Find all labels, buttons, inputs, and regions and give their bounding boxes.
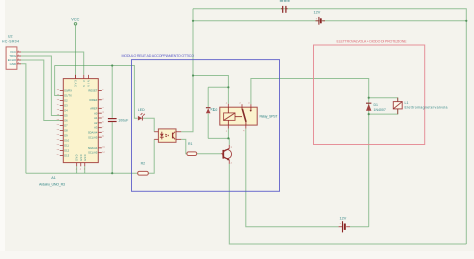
svg-text:3V3: 3V3	[74, 80, 78, 87]
wire D2 vertical bottom	[207, 114, 209, 139]
wire arduino GND pin 1	[76, 166, 78, 173]
svg-text:D0/RX: D0/RX	[64, 89, 72, 93]
svg-text:GND: GND	[10, 62, 16, 66]
junction node (466.3,20.8)	[465, 20, 467, 22]
wire relay contact to solenoid loop	[251, 79, 369, 105]
svg-text:R1: R1	[188, 142, 193, 146]
diode D1 1N4007	[366, 103, 386, 112]
wire VCC stem	[75, 25, 77, 75]
svg-text:SCL/A5: SCL/A5	[88, 151, 98, 155]
svg-text:SDA/A4: SDA/A4	[88, 146, 98, 150]
svg-text:D9: D9	[64, 134, 68, 138]
svg-text:RESET: RESET	[88, 89, 97, 93]
svg-text:A1: A1	[94, 116, 98, 120]
arduino module A1 Arduino_UNO_R3	[57, 75, 106, 171]
wire relay coil bottom to transistor collector	[227, 129, 230, 145]
svg-text:ELETTROVALVOLA + DIODO DI PROT: ELETTROVALVOLA + DIODO DI PROTEZIONE	[337, 40, 408, 44]
solenoid L1 electromagnet	[393, 98, 447, 114]
svg-text:D6: D6	[64, 119, 68, 123]
junction node (112.2,173.2)	[111, 172, 113, 174]
svg-text:1N4007: 1N4007	[374, 108, 386, 112]
svg-text:MODULO RELE' AD ACCOPPIAMENTO: MODULO RELE' AD ACCOPPIAMENTO OTTICO	[122, 54, 195, 58]
junction node (368.7,97.7)	[368, 97, 370, 99]
optocoupler U1	[154, 129, 181, 142]
wire left vertical node x193 down to optocoupler	[181, 9, 193, 132]
svg-text:100uF: 100uF	[118, 118, 128, 122]
svg-text:D8: D8	[64, 129, 68, 133]
svg-text:GND: GND	[75, 154, 79, 161]
wire D2 top branch	[208, 86, 228, 88]
svg-text:D1: D1	[374, 103, 379, 107]
wire capacitor C1 bottom lead	[111, 122, 113, 173]
svg-text:GND: GND	[83, 154, 87, 161]
wire optocoupler cathode down to R2	[148, 139, 154, 173]
svg-text:Arduino_UNO_R3: Arduino_UNO_R3	[39, 182, 65, 186]
svg-text:VIN: VIN	[87, 80, 91, 87]
wire solenoid node down to battery BT2	[368, 98, 370, 227]
svg-text:D2: D2	[64, 99, 68, 103]
wire sensor GND to ground rail	[21, 64, 26, 173]
wire capacitor C1 top lead	[111, 66, 113, 118]
wire ground rail y173	[26, 172, 138, 174]
wire D2 bottom branch	[208, 137, 228, 139]
wire arduino GND pin 3	[84, 166, 86, 173]
wire 5V rail feeding LED	[55, 66, 138, 119]
resistor R2	[138, 171, 149, 175]
svg-text:D7: D7	[64, 124, 68, 128]
capacitor C2 top rail	[282, 6, 283, 13]
wire solenoid loop bottom	[369, 109, 398, 114]
wire relay contact common down along bottom rail	[246, 129, 339, 227]
junction node (368.7,114.1)	[368, 113, 370, 115]
sensor U2 HC-SR04	[2, 35, 21, 70]
svg-text:GND: GND	[79, 154, 83, 161]
svg-text:IOREF: IOREF	[89, 98, 98, 102]
relay K1 Relay_SPST	[211, 102, 279, 132]
svg-text:R2: R2	[141, 161, 146, 165]
svg-text:A2: A2	[94, 121, 98, 125]
wire emitter to ground rail	[229, 164, 466, 244]
svg-text:Elettromagnete/valvola: Elettromagnete/valvola	[405, 105, 448, 109]
svg-text:HC-SR04: HC-SR04	[2, 40, 19, 44]
wire top rail from node VIN to battery right node	[193, 9, 466, 244]
svg-text:D12: D12	[64, 149, 69, 153]
svg-text:D13: D13	[64, 154, 69, 158]
svg-text:A1: A1	[51, 176, 56, 180]
wire LED cathode to optocoupler anode	[143, 118, 154, 132]
wire sensor VCC to 5V pin	[21, 52, 84, 75]
svg-text:D1/TX: D1/TX	[64, 94, 72, 98]
svg-text:A3: A3	[94, 126, 98, 130]
svg-text:SCL/A5: SCL/A5	[88, 135, 98, 139]
battery BT1 12V top	[318, 17, 320, 25]
resistor R1	[187, 152, 197, 156]
junction node (112.2,65.5)	[111, 64, 113, 66]
wire D2 vertical top	[207, 87, 209, 107]
wire optocoupler collector-side to R1	[181, 139, 187, 153]
wire battery BT2 to solenoid vertical	[350, 226, 369, 228]
svg-text:A0: A0	[94, 111, 98, 115]
wire sensor TRIG to D5	[21, 56, 60, 116]
wire second rail through battery BT1	[193, 20, 466, 22]
svg-text:U2: U2	[8, 35, 13, 39]
svg-text:Relay_SPST: Relay_SPST	[260, 115, 279, 119]
svg-text:K1: K1	[211, 108, 215, 112]
battery BT2 12V bottom	[342, 221, 344, 232]
wire branch to relay coil top	[193, 76, 228, 104]
LED indicator diode	[138, 108, 145, 120]
svg-text:D5: D5	[64, 114, 68, 118]
junction node (193,20.8)	[192, 20, 194, 22]
wire solenoid loop top	[369, 98, 398, 102]
transistor Q1 NPN	[221, 145, 233, 165]
svg-text:L1: L1	[405, 101, 409, 105]
svg-text:LED: LED	[138, 108, 145, 112]
junction node (228.4,87.3)	[227, 86, 229, 88]
svg-text:D4: D4	[64, 109, 68, 113]
svg-text:D10: D10	[64, 139, 69, 143]
power symbol VCC	[74, 23, 76, 25]
wire R1 to transistor base	[197, 153, 221, 155]
svg-text:D11: D11	[64, 144, 69, 148]
elettrovalvola boundary box	[314, 45, 425, 145]
svg-text:AREF: AREF	[90, 107, 98, 111]
diode D2 flyback	[206, 108, 218, 114]
wire sensor ECHO to D6	[21, 60, 60, 121]
svg-text:12V: 12V	[314, 10, 321, 14]
junction node (228.4,138.4)	[227, 137, 229, 139]
svg-text:D3: D3	[64, 104, 68, 108]
junction node (193,75.5)	[192, 74, 194, 76]
wire rail tap to arduino D1 pin	[55, 66, 60, 96]
svg-text:VCC: VCC	[71, 18, 79, 22]
svg-text:12V: 12V	[340, 216, 347, 220]
capacitor C1 100uF	[108, 118, 117, 119]
relay module boundary box	[132, 60, 280, 192]
svg-text:SDA/A4: SDA/A4	[88, 131, 98, 135]
